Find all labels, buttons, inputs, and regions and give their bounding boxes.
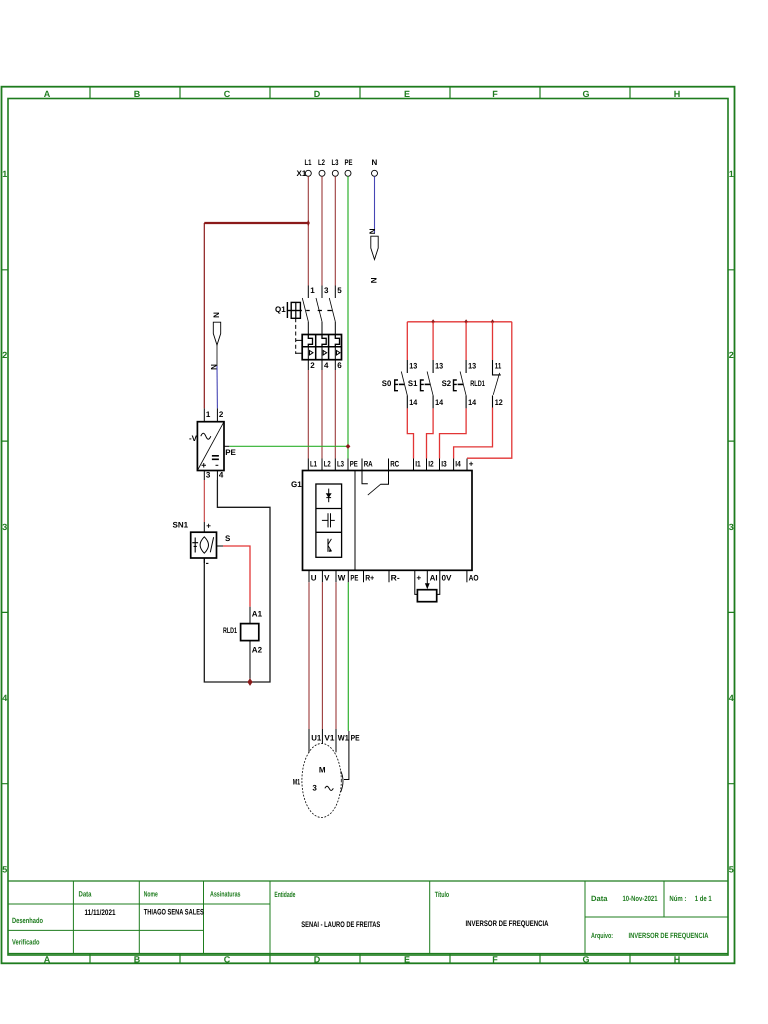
svg-text:3: 3 [324,286,329,295]
svg-text:I3: I3 [441,460,447,469]
rectifier pin 2 stub and label [216,408,218,421]
pushbutton S0 pin 13 [406,360,408,373]
net continuation arrow N (left) [213,322,220,345]
overload release triangle pole 3 [337,351,341,356]
svg-text:5: 5 [2,865,7,875]
SN1 lens symbol [200,537,208,553]
svg-text:I2: I2 [428,460,434,469]
G1 top pin stub PE [347,459,349,471]
relay coil A2 stub and label [249,641,251,682]
svg-text:Assinaturas: Assinaturas [210,890,241,899]
G1 bottom pin stub brake plus [415,570,418,594]
svg-text:AI: AI [430,573,438,582]
svg-text:L1: L1 [305,158,312,167]
rectifier AC sine symbol [201,433,211,439]
svg-text:3: 3 [206,471,211,480]
SN1 box outline [191,532,217,558]
wire stub from arrow to blue [216,345,218,366]
svg-text:E: E [404,955,410,965]
svg-text:R+: R+ [365,573,374,582]
wire W to motor [335,582,337,729]
svg-text:Entidade: Entidade [274,890,295,899]
svg-text:U: U [311,573,317,582]
svg-text:R-: R- [391,573,400,582]
G1 bottom pin stub AO [466,570,468,582]
svg-text:14: 14 [435,398,443,407]
wire L1 down from terminal [307,176,309,285]
title block horizontal separators [8,904,728,930]
wire bus down to rectifier pin 1 [203,223,205,408]
svg-text:D: D [314,89,321,99]
G1 top pin stub I1 [413,459,415,471]
svg-text:3: 3 [312,783,317,792]
linkage dashed vertical [295,318,297,354]
inverter icon squares [316,484,342,557]
terminal circle L2 [319,170,325,176]
rectifier DC symbol [212,456,219,460]
svg-text:6: 6 [337,361,342,370]
svg-text:F: F [492,955,498,965]
junction dot bus at S1 [431,319,434,324]
relay output contact RA-RC inside G1 [362,471,368,484]
svg-text:10-Nov-2021: 10-Nov-2021 [623,894,659,903]
G1 bottom pin stub U [308,570,310,582]
svg-text:INVERSOR DE FREQUENCIA: INVERSOR DE FREQUENCIA [629,931,709,940]
G1 top pin stub I2 [426,459,428,471]
svg-text:PE: PE [350,573,358,582]
pushbutton S0 actuator E [395,380,398,391]
wire N blue down from terminal [374,176,376,233]
motor pin U1 stub and label [308,729,310,753]
svg-text:H: H [674,89,681,99]
svg-text:1: 1 [206,410,211,419]
svg-text:E: E [404,89,410,99]
svg-text:PE: PE [345,158,353,167]
motor pin V1 stub and label [321,729,323,744]
svg-text:N: N [212,312,221,318]
column separators top header [90,87,630,99]
wire L2 down from terminal [321,176,323,285]
svg-text:1: 1 [2,169,7,179]
wire bus drop to S0 [406,322,408,360]
svg-text:L2: L2 [324,460,331,469]
svg-text:1: 1 [729,169,734,179]
svg-text:Data: Data [79,890,93,899]
svg-text:Arquivo:: Arquivo: [591,931,613,940]
rectifier block outline [197,422,224,471]
SN1 slash [210,537,213,552]
junction dot on PE net [346,444,351,449]
svg-text:+: + [469,460,474,469]
rectifier minus mark [216,464,219,466]
wire L2 to inverter [321,370,323,459]
svg-text:G: G [582,955,589,965]
svg-text:4: 4 [219,471,224,480]
G1 bottom pin AI with arrow [426,570,428,584]
G1 top pin stub L1 [307,459,309,471]
wire DC minus black loop [204,480,270,682]
SN1 minus pin stub and label [203,558,205,563]
terminal circle L3 [332,170,338,176]
wire bus drop to S2 [465,322,467,360]
terminal circle L1 [305,170,311,176]
wire L3 to inverter [334,370,336,459]
svg-text:1: 1 [310,286,315,295]
relay coil A1 stub and label [249,607,251,624]
wire V to motor [321,582,323,729]
svg-text:2: 2 [310,361,315,370]
G1 bottom pin stub R- [388,570,390,582]
G1 top pin stub I4 [453,459,455,471]
G1 top pin stub RA [361,459,363,471]
G1 top pin stub plus [466,459,468,471]
Q1 lower pin stubs into overload [308,322,335,335]
terminal circle N [372,170,378,176]
relay contact pin 11 [493,360,501,375]
svg-text:PE: PE [351,733,361,742]
rectifier pin 4 stub and label [216,471,218,481]
pushbutton S0 blade [401,372,407,396]
linkage dashes to poles [306,310,332,312]
wire S to relay coil [223,546,250,607]
svg-text:S0: S0 [382,379,392,388]
svg-text:S2: S2 [442,379,452,388]
column letters bottom [44,955,681,965]
svg-text:INVERSOR DE FREQUENCIA: INVERSOR DE FREQUENCIA [466,919,549,928]
terminal circle PE [345,170,351,176]
svg-text:C: C [224,89,231,99]
svg-text:2: 2 [2,350,7,360]
svg-text:N: N [368,228,377,234]
pushbutton S2 pin 13 [465,360,467,373]
svg-text:SENAI - LAURO DE FREITAS: SENAI - LAURO DE FREITAS [301,920,380,929]
svg-text:Nome: Nome [144,890,158,899]
wire PE green from rectifier to PE net [229,445,348,447]
svg-text:W1: W1 [338,733,350,742]
svg-text:Núm :: Núm : [669,894,686,903]
svg-text:H: H [674,955,681,965]
rectifier pin 3 stub and label [203,471,205,481]
svg-text:A: A [44,89,51,99]
svg-text:SN1: SN1 [173,521,189,530]
svg-text:A1: A1 [252,610,263,619]
inverter G1 block outline [303,471,473,571]
drawing frame inner border [8,99,728,956]
motor PE terminal arc [341,771,343,792]
column separators bottom footer [90,954,630,964]
wire PE to motor [347,582,349,731]
rectifier plus mark [202,463,207,468]
wire DC plus to SN1 [203,480,205,522]
wire U to motor [308,582,310,729]
wire L1 to inverter [307,370,309,459]
svg-text:A2: A2 [252,645,263,654]
svg-text:M1: M1 [293,777,301,786]
lower pin stubs below overload [308,360,335,370]
svg-text:G: G [582,89,589,99]
G1 top pin stub I3 [439,459,441,471]
relay contact blade NC [493,373,499,395]
linkage dashes into overload block [296,340,302,353]
wire bus drop to S1 [432,322,434,360]
G1 bottom pin stub PE [347,570,349,582]
svg-text:L1: L1 [310,460,317,469]
wire RLD1 contact to I4 [454,408,493,459]
overload relay block outline [302,335,341,360]
wire S2 to I3 [440,408,467,458]
svg-text:2: 2 [219,410,224,419]
svg-text:Q1: Q1 [275,305,286,314]
svg-text:5: 5 [729,865,734,875]
pushbutton S1 actuator E [421,380,424,391]
relay coil RLD1 box [241,624,259,641]
overload lower wires [308,347,335,360]
svg-text:I4: I4 [455,460,461,469]
svg-text:I1: I1 [415,460,421,469]
row separators left margin [2,270,9,784]
row separators right margin [728,270,735,784]
motor PE stub and label [344,731,349,780]
G1 top pin stub L3 [334,459,336,471]
svg-text:PE: PE [225,448,236,457]
svg-text:G1: G1 [291,480,302,489]
rectifier diagonal [197,422,224,471]
relay contact pin 12 [492,395,494,407]
svg-text:+: + [417,573,422,582]
svg-text:Título: Título [435,890,450,899]
SN1 plus pin stub and label [203,522,205,532]
svg-text:3: 3 [729,522,734,532]
inverter inner divider [354,471,356,571]
wire N blue to rectifier pin 2 [216,366,218,408]
svg-text:12: 12 [495,398,503,407]
svg-text:V: V [324,573,330,582]
junction dot on L1 [307,220,310,226]
row numbers right margin [729,169,734,875]
net continuation arrow N (top) [371,236,378,259]
svg-text:14: 14 [468,398,476,407]
row numbers left margin [2,169,7,875]
svg-text:4: 4 [324,361,329,370]
rectifier PE pin stub [224,445,229,447]
svg-text:N: N [372,158,378,167]
G1 top pin stub L2 [321,459,323,471]
svg-text:4: 4 [729,693,734,703]
Q1 pole 1 contact blade [302,298,308,322]
svg-text:B: B [134,955,141,965]
svg-text:L3: L3 [337,460,344,469]
svg-text:V1: V1 [324,733,335,742]
Q1 pole 3 contact blade [329,298,335,322]
svg-text:M: M [319,766,326,775]
junction dot bus at S2 [464,319,467,324]
svg-text:14: 14 [409,398,417,407]
svg-text:L3: L3 [332,158,339,167]
svg-text:Data: Data [591,894,608,903]
heavy bus wire to rectifier [204,222,308,224]
column letters top [44,89,681,99]
svg-text:C: C [224,955,231,965]
G1 bottom pin stub V [321,570,323,582]
pushbutton S1 pin 13 [432,360,434,373]
svg-text:AO: AO [469,573,479,582]
svg-text:5: 5 [337,286,342,295]
svg-text:RLD1: RLD1 [470,379,485,388]
icon diode [328,489,330,503]
Q1 pole 2 contact blade [316,298,322,322]
junction dot bus at RLD1 [491,319,494,324]
svg-text:A: A [44,955,51,965]
svg-text:RC: RC [390,460,399,469]
icon capacitor [322,519,335,521]
svg-text:Verificado: Verificado [12,938,40,947]
pushbutton S2 pin 14 [465,396,467,409]
pushbutton S2 blade [460,372,466,396]
svg-text:13: 13 [435,361,443,370]
wire PE green down from terminal [347,176,349,458]
SN1 battery symbol [192,538,198,553]
G1 top pin stub RC [388,459,390,471]
overload heater element pole 3 [335,335,339,347]
motor sine symbol [325,786,333,790]
wire L3 down from terminal [334,176,336,285]
svg-text:F: F [492,89,498,99]
svg-text:-V: -V [189,434,198,443]
svg-text:+: + [206,522,211,531]
overload heater element pole 2 [322,335,326,347]
title block vertical separators [73,881,664,963]
svg-text:PE: PE [350,460,358,469]
wire bus drop to RLD1 contact [492,322,494,360]
svg-text:L2: L2 [318,158,325,167]
wire bus drop right side [467,322,512,458]
pushbutton S1 pin 14 [432,396,434,409]
pushbutton S1 blade [427,372,433,396]
rectifier pin 1 stub and label [203,408,205,421]
wire S0 to I1 [407,408,413,458]
svg-text:D: D [314,955,321,965]
svg-text:1 de 1: 1 de 1 [695,894,713,903]
motor M1 circle [302,744,341,818]
svg-text:4: 4 [2,693,7,703]
svg-text:3: 3 [2,522,7,532]
icon transistor [327,539,329,552]
svg-text:W: W [338,573,346,582]
svg-text:13: 13 [468,361,476,370]
breaker Q1 operator crossed box [291,302,300,318]
svg-text:0V: 0V [442,573,453,582]
svg-text:11/11/2021: 11/11/2021 [85,908,116,917]
G1 bottom pin stub R+ [363,570,365,582]
braking resistor box [417,590,436,602]
G1 bottom pin stub 0V [437,570,440,594]
svg-text:U1: U1 [311,733,322,742]
svg-text:13: 13 [409,361,417,370]
svg-text:S1: S1 [408,379,418,388]
control bus wire [407,321,512,323]
svg-text:2: 2 [729,350,734,360]
overload release triangle pole 1 [310,351,314,356]
svg-text:S: S [225,534,231,543]
pushbutton S0 pin 14 [406,396,408,409]
wire S1 to I2 [427,408,434,458]
junction dot at coil return [247,678,252,686]
title block outline [8,881,728,954]
Q1 upper pin stubs [308,286,335,299]
svg-text:B: B [134,89,141,99]
overload release triangle pole 2 [323,351,327,356]
svg-text:RA: RA [364,460,373,469]
breaker Q1 operator bar [286,302,288,318]
pushbutton S2 actuator E [454,380,457,391]
svg-text:Desenhado: Desenhado [12,916,43,925]
overload heater element pole 1 [308,335,312,347]
svg-text:11: 11 [495,361,502,370]
G1 bottom pin stub W [335,570,337,582]
motor pin W1 stub and label [335,729,337,752]
svg-text:THIAGO SENA SALES: THIAGO SENA SALES [144,908,204,917]
svg-text:N: N [370,277,379,283]
SN1 S output stub [217,545,224,547]
svg-text:RLD1: RLD1 [223,626,237,635]
